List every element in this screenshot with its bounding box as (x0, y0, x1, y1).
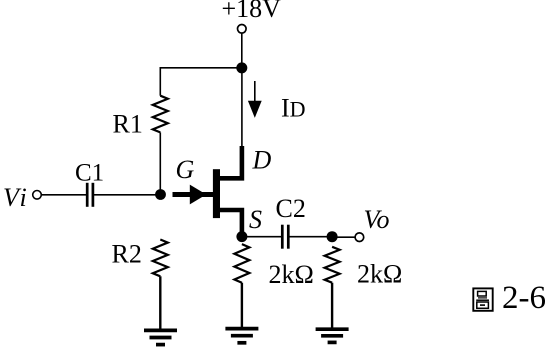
wire top of R1 (159, 67, 161, 96)
svg-text:2kΩ: 2kΩ (269, 260, 314, 289)
transistor Q1 gate lead with arrow (173, 185, 214, 205)
supply terminal circle (238, 25, 247, 34)
capacitor C2 (282, 225, 288, 249)
transistor Q1 source lead (220, 210, 242, 236)
input terminal circle Vi (33, 191, 42, 200)
wire Vi to C1 (42, 194, 87, 196)
svg-text:2kΩ: 2kΩ (357, 260, 402, 289)
wire output node to Vo terminal (332, 236, 355, 238)
wire top horizontal to R1 branch (160, 67, 242, 69)
transistor Q1 drain lead (220, 146, 242, 178)
wire C2 to output node (289, 236, 332, 238)
svg-text:C2: C2 (276, 194, 306, 223)
svg-text:G: G (176, 155, 195, 184)
svg-text:2-6: 2-6 (502, 280, 546, 316)
wire R1 bottom to gate node (159, 132, 161, 194)
node top junction dot (236, 62, 247, 73)
svg-text:ID: ID (281, 93, 306, 122)
output terminal circle Vo (355, 233, 364, 242)
resistor R1 (153, 96, 168, 133)
ground under RL (316, 329, 349, 342)
wire RL to ground (331, 283, 333, 330)
node gate junction dot (155, 189, 166, 200)
svg-text:Vi: Vi (3, 183, 29, 212)
svg-text:+18V: +18V (222, 0, 282, 23)
svg-text:R2: R2 (112, 240, 142, 269)
current arrow ID (248, 81, 262, 118)
resistor RL 2k load (325, 247, 340, 283)
capacitor C1 (87, 183, 93, 207)
wire source node to C2 (242, 236, 281, 238)
wire RS to ground (241, 283, 243, 329)
wire C1 to gate node (94, 194, 160, 196)
svg-text:R1: R1 (113, 110, 143, 139)
ground under RS (225, 329, 258, 343)
svg-text:C1: C1 (75, 160, 104, 187)
wire drain to top node (241, 68, 243, 147)
caption character Tu (figure) (473, 288, 492, 310)
resistor RS 2k source (234, 244, 249, 283)
ground under R2 (144, 330, 177, 344)
wire supply circle to top node (241, 34, 243, 68)
wire R2 to ground (159, 276, 161, 330)
svg-text:Vo: Vo (364, 205, 390, 234)
node source junction dot (236, 231, 247, 242)
transistor Q1 channel bar (213, 169, 220, 218)
svg-text:D: D (252, 146, 272, 175)
resistor R2 (153, 240, 168, 277)
svg-text:S: S (249, 205, 262, 234)
node output junction dot (327, 231, 338, 242)
